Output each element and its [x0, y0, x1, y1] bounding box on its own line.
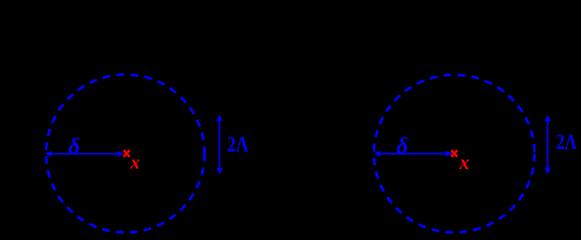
right dashed circle [374, 75, 535, 233]
right center cross marker [451, 150, 457, 157]
svg-text:x: x [129, 152, 140, 173]
left center cross marker [124, 150, 130, 157]
svg-text:δ: δ [68, 134, 80, 159]
svg-text:2Λ: 2Λ [556, 129, 577, 154]
right delta arrow [374, 151, 452, 157]
svg-text:2Λ: 2Λ [227, 131, 249, 156]
left 2-Lambda vertical arrow [216, 115, 222, 175]
svg-text:δ: δ [396, 134, 408, 159]
right 2-Lambda vertical arrow [545, 115, 551, 174]
left delta arrow (double-headed, center to edge) [45, 151, 124, 157]
left dashed circle [46, 75, 205, 233]
svg-text:x: x [459, 153, 470, 174]
